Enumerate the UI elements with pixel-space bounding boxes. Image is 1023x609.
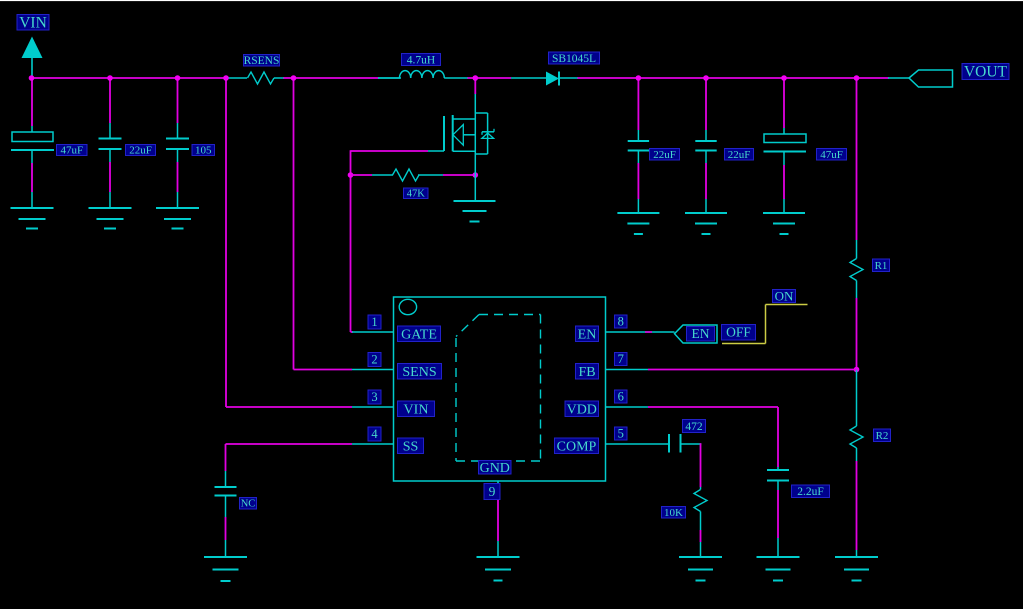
wire to VOUT port bbox=[888, 77, 910, 79]
switch line OFF position bbox=[722, 343, 766, 345]
wire diode cathode to VOUT rail bbox=[577, 77, 889, 79]
net label VIN bbox=[17, 15, 49, 31]
pin 5 stub bbox=[606, 443, 649, 445]
pin 3 VIN stub bbox=[352, 406, 394, 408]
node junction bbox=[781, 75, 787, 81]
svg-text:47K: 47K bbox=[407, 189, 426, 200]
node junction bbox=[854, 75, 860, 81]
ground (R2) bbox=[835, 556, 878, 558]
pin number 3 bbox=[368, 390, 381, 404]
wire inductor to SW node bbox=[467, 77, 511, 79]
svg-text:9: 9 bbox=[489, 484, 496, 499]
pin 2 SENS stub bbox=[352, 369, 394, 371]
svg-text:4: 4 bbox=[371, 427, 378, 441]
capacitor 22uF (output) bbox=[705, 78, 707, 130]
svg-text:NC: NC bbox=[241, 499, 256, 510]
inductor L1 4.7uH bbox=[378, 77, 401, 79]
svg-text:OFF: OFF bbox=[726, 325, 751, 340]
pin 6 stub bbox=[606, 406, 649, 408]
ground (pin 9) bbox=[477, 556, 520, 558]
svg-text:472: 472 bbox=[685, 421, 703, 433]
IC pin-1 circle bbox=[399, 299, 416, 314]
pin label GATE bbox=[398, 326, 441, 342]
svg-text:SB1045L: SB1045L bbox=[552, 53, 596, 65]
pin 7 stub bbox=[606, 369, 649, 371]
svg-text:EN: EN bbox=[578, 327, 597, 342]
svg-text:47uF: 47uF bbox=[820, 149, 843, 161]
wire SENS net to pin 2 bbox=[293, 78, 295, 370]
svg-text:3: 3 bbox=[371, 390, 377, 404]
op IC U1 body bbox=[394, 297, 606, 481]
wire R2 to ground bbox=[856, 461, 858, 550]
node junction 47K left bbox=[348, 172, 354, 178]
pin number 7 bbox=[615, 353, 628, 366]
svg-text:22uF: 22uF bbox=[129, 145, 152, 157]
svg-text:GATE: GATE bbox=[401, 327, 437, 342]
svg-text:EN: EN bbox=[692, 326, 710, 341]
svg-text:22uF: 22uF bbox=[653, 149, 676, 161]
pin label SENS bbox=[398, 364, 442, 380]
wire pin 4 SS to NC cap bbox=[226, 443, 353, 445]
node junction bbox=[107, 75, 113, 81]
svg-text:VIN: VIN bbox=[19, 14, 47, 31]
svg-text:2.2uF: 2.2uF bbox=[797, 486, 824, 498]
svg-text:4.7uH: 4.7uH bbox=[407, 54, 435, 66]
pin 1 GATE stub bbox=[352, 331, 394, 333]
ground (C1) bbox=[11, 207, 54, 209]
wire pin 5 COMP bbox=[648, 443, 669, 445]
ground (C2) bbox=[89, 207, 132, 209]
svg-text:VOUT: VOUT bbox=[964, 64, 1008, 81]
svg-text:10K: 10K bbox=[664, 507, 683, 519]
wire RSENS to SENS node bbox=[283, 77, 294, 79]
ground (output cap) bbox=[617, 212, 659, 214]
pin number 9 bbox=[484, 484, 500, 500]
port VOUT bbox=[909, 70, 953, 87]
switch line vertical bbox=[765, 305, 767, 344]
power port VIN arrow bbox=[22, 37, 43, 59]
pin number 4 bbox=[368, 427, 381, 441]
svg-text:2: 2 bbox=[371, 353, 377, 367]
capacitor 22uF (output) bbox=[637, 78, 639, 130]
svg-text:RSENS: RSENS bbox=[244, 55, 280, 67]
node junction bbox=[636, 75, 642, 81]
wire pin 6 VDD bbox=[648, 406, 778, 408]
wire 472 to 10K bbox=[681, 443, 702, 445]
top border line bbox=[0, 0, 1023, 1]
pin label SS bbox=[398, 438, 424, 454]
pin label GND bbox=[479, 461, 512, 475]
capacitor 47uF (output, polarized) bbox=[783, 78, 785, 128]
node junction bbox=[29, 75, 35, 81]
wire R1 to FB node bbox=[856, 298, 858, 370]
pin 8 stub bbox=[606, 331, 649, 333]
pin 4 SS stub bbox=[352, 443, 394, 445]
wire pin 8 to EN port bbox=[648, 331, 675, 333]
svg-text:FB: FB bbox=[578, 365, 595, 380]
svg-text:R2: R2 bbox=[876, 430, 889, 442]
resistor 10K bbox=[700, 487, 702, 490]
svg-text:VDD: VDD bbox=[567, 402, 597, 417]
ground (NC) bbox=[204, 556, 247, 558]
net label VOUT bbox=[962, 64, 1009, 80]
IC exposed pad dashed outline bbox=[456, 315, 541, 462]
ground (Q1 source) bbox=[474, 171, 476, 201]
svg-text:SENS: SENS bbox=[402, 365, 436, 380]
wire VOUT node down to R1 bbox=[856, 78, 858, 240]
capacitor NC bbox=[225, 471, 227, 487]
svg-text:105: 105 bbox=[195, 145, 212, 157]
capacitor 472 bbox=[668, 434, 670, 453]
pin 9 stub bbox=[497, 481, 499, 500]
pin number 1 bbox=[368, 315, 381, 329]
svg-text:5: 5 bbox=[618, 427, 624, 441]
resistor R1 bbox=[856, 240, 858, 259]
node junction bbox=[703, 75, 709, 81]
wire VIN rail bbox=[31, 77, 228, 79]
svg-text:47uF: 47uF bbox=[60, 145, 83, 157]
text ON bbox=[773, 290, 796, 303]
pin label EN bbox=[576, 326, 599, 342]
svg-text:COMP: COMP bbox=[557, 439, 597, 454]
wire SENS node to inductor bbox=[293, 77, 379, 79]
node junction bbox=[291, 75, 297, 81]
transistor Q1 MOSFET bbox=[474, 78, 476, 94]
wire pin 7 FB to divider bbox=[648, 369, 857, 371]
wire GATE net to pin 1 bbox=[351, 331, 354, 333]
node junction bbox=[223, 75, 229, 81]
ground (C3) bbox=[156, 207, 199, 209]
ground (47uF output) bbox=[763, 212, 805, 214]
node junction bbox=[473, 75, 479, 81]
pin label VDD bbox=[565, 401, 599, 417]
ground (10K) bbox=[679, 556, 722, 558]
svg-text:7: 7 bbox=[618, 352, 624, 366]
net label EN bbox=[687, 327, 715, 342]
node FB junction bbox=[854, 367, 860, 373]
switch line ON position bbox=[766, 304, 808, 306]
pin label COMP bbox=[555, 438, 599, 454]
pin label VIN bbox=[398, 401, 435, 417]
capacitor C2 22uF (input) bbox=[109, 78, 111, 123]
svg-text:GND: GND bbox=[480, 461, 510, 476]
resistor R2 bbox=[856, 370, 858, 427]
svg-text:ON: ON bbox=[775, 288, 794, 303]
node junction MOSFET source bbox=[473, 172, 479, 178]
ground (2.2uF) bbox=[757, 556, 800, 558]
resistor 47K bbox=[351, 174, 373, 176]
pin number 5 bbox=[615, 427, 628, 440]
capacitor 2.2uF bbox=[777, 467, 779, 470]
wire VIN net to pin 3 bbox=[225, 78, 227, 407]
svg-text:VIN: VIN bbox=[404, 402, 429, 417]
pin number 8 bbox=[615, 315, 628, 328]
pin number 2 bbox=[368, 353, 381, 367]
svg-text:22uF: 22uF bbox=[728, 149, 751, 161]
ground (output cap) bbox=[685, 212, 727, 214]
capacitor C3 105 (input) bbox=[177, 78, 179, 123]
svg-text:6: 6 bbox=[618, 390, 624, 404]
text OFF bbox=[722, 325, 756, 341]
port EN bbox=[675, 325, 718, 343]
capacitor C1 47uF (input) bbox=[31, 78, 33, 126]
resistor RSENS bbox=[228, 77, 247, 79]
wire pin 9 to ground bbox=[497, 500, 499, 541]
node junction bbox=[175, 75, 181, 81]
wire 10K to ground bbox=[700, 530, 702, 542]
pin number 6 bbox=[615, 390, 628, 403]
svg-text:R1: R1 bbox=[875, 260, 888, 272]
diode D1 SB1045L bbox=[511, 77, 546, 79]
pin label FB bbox=[576, 364, 599, 380]
svg-text:8: 8 bbox=[618, 315, 624, 329]
svg-text:SS: SS bbox=[403, 439, 419, 454]
wire gate to GATE net bbox=[351, 150, 429, 152]
svg-text:1: 1 bbox=[371, 315, 377, 329]
